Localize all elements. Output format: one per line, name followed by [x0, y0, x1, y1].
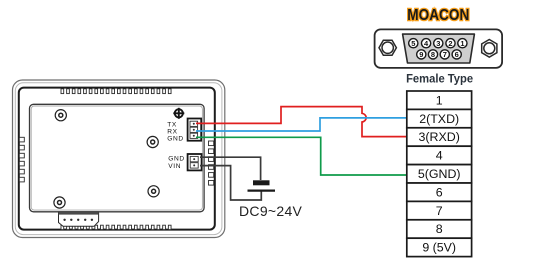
svg-text:6: 6 [455, 50, 459, 59]
DB9 pin 2 [446, 39, 455, 48]
DB9 pin 8 [428, 50, 437, 59]
svg-text:GND: GND [167, 136, 183, 143]
DB9 D-sub body [403, 34, 475, 63]
svg-text:8: 8 [436, 222, 443, 236]
pin table row 8 [407, 220, 472, 238]
svg-text:1: 1 [436, 93, 443, 107]
screw top-left [55, 110, 66, 121]
svg-text:5(GND): 5(GND) [418, 167, 461, 181]
svg-text:2: 2 [448, 39, 452, 48]
wire VIN to battery - (dark) [200, 166, 261, 200]
svg-text:6: 6 [436, 185, 443, 199]
svg-text:2(TXD): 2(TXD) [419, 112, 459, 126]
svg-text:VIN: VIN [168, 163, 181, 170]
DB9 left jack nut [379, 40, 396, 55]
screw lower-center [148, 186, 159, 197]
DB9 pin 3 [434, 39, 443, 48]
pin table row 2(TXD) [407, 109, 472, 127]
svg-text:5: 5 [411, 39, 415, 48]
wire GND to battery + (dark) [200, 157, 261, 180]
HMI device inner frame [19, 88, 215, 230]
svg-text:TX: TX [167, 121, 177, 128]
DB9 pin 6 [452, 50, 461, 59]
HMI device outer case [13, 80, 225, 238]
phillips screw (earth symbol) [173, 108, 184, 119]
DB9 pin 9 [417, 50, 426, 59]
svg-text:7: 7 [436, 204, 443, 218]
screw bottom-left [54, 197, 65, 208]
svg-text:3: 3 [436, 39, 440, 48]
svg-text:8: 8 [431, 50, 435, 59]
DB9 pin 5 [409, 39, 418, 48]
DB9 right jack nut [482, 40, 497, 58]
wire TX to 3(RXD) (red) [196, 107, 407, 137]
wire RX to 2(TXD) (blue) [196, 118, 407, 131]
svg-text:DC9~24V: DC9~24V [239, 203, 303, 219]
vent slots top row [61, 89, 171, 94]
pin table row 4 [407, 146, 472, 164]
svg-text:RX: RX [167, 129, 177, 136]
svg-text:7: 7 [443, 50, 447, 59]
DB9 connector shell [375, 29, 503, 68]
DB9 pin 4 [422, 39, 431, 48]
DB9 pin 1 [458, 39, 467, 48]
pin table row 7 [407, 201, 472, 219]
screw center [147, 136, 158, 147]
svg-text:9 (5V): 9 (5V) [422, 241, 456, 255]
vent slots right column [209, 141, 214, 185]
vent slots bottom row [61, 225, 171, 229]
svg-text:9: 9 [419, 50, 423, 59]
power terminal block GND/VIN [188, 154, 202, 170]
serial terminal block TX/RX/GND [188, 119, 202, 141]
pin table row 6 [407, 183, 472, 201]
svg-text:GND: GND [168, 156, 184, 163]
pin table row 9 (5V) [407, 238, 472, 256]
battery DC9~24V [248, 180, 276, 190]
svg-text:Female Type: Female Type [406, 72, 473, 86]
pin table row 3(RXD) [407, 128, 472, 146]
svg-text:1: 1 [460, 39, 464, 48]
svg-text:4: 4 [436, 149, 443, 163]
HMI device mounting panel [30, 104, 205, 212]
bottom multi-pin connector [59, 212, 99, 226]
vent slots left column [19, 137, 24, 182]
pin table row 5(GND) [407, 165, 472, 183]
DB9 pin 7 [440, 50, 449, 59]
wire GND to 5(GND) (green) [196, 137, 407, 175]
svg-text:MOACON: MOACON [407, 7, 469, 24]
svg-text:3(RXD): 3(RXD) [419, 130, 460, 144]
pin table row 1 [407, 91, 472, 109]
